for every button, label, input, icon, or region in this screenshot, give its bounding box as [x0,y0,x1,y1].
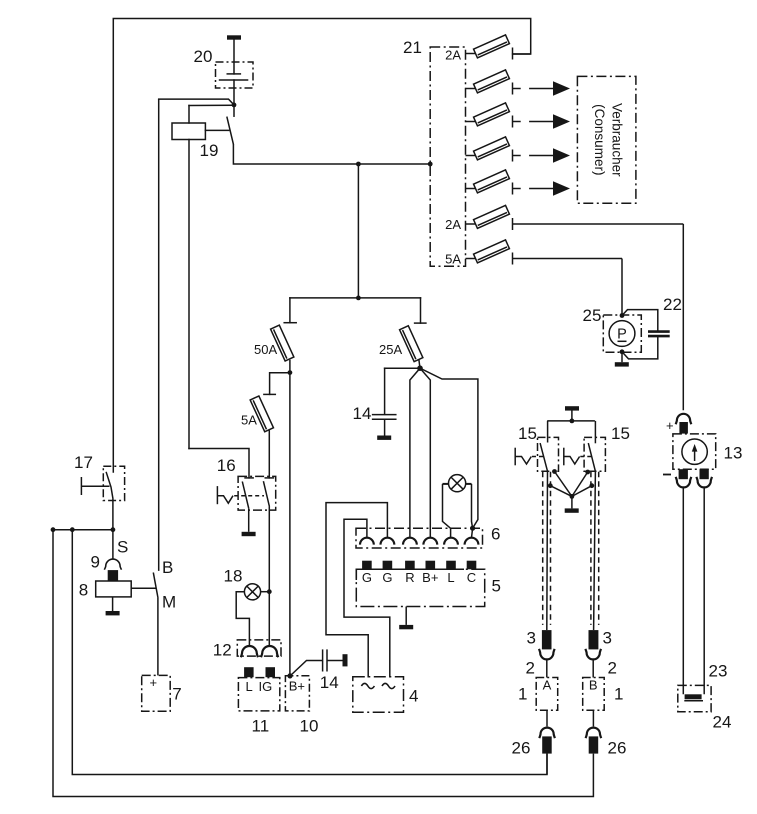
svg-text:10: 10 [300,717,319,736]
svg-text:G: G [382,570,392,585]
svg-text:L: L [246,679,253,694]
svg-text:15: 15 [611,424,630,443]
svg-text:IG: IG [259,679,273,694]
svg-text:P: P [617,327,627,343]
svg-text:B+: B+ [422,570,438,585]
svg-text:2: 2 [608,659,617,678]
svg-text:26: 26 [512,739,531,758]
svg-text:1: 1 [614,685,623,704]
svg-text:15: 15 [518,424,537,443]
svg-text:2: 2 [526,659,535,678]
svg-text:3: 3 [603,629,612,648]
svg-text:3: 3 [527,629,536,648]
svg-text:13: 13 [724,444,743,463]
svg-text:6: 6 [491,525,500,544]
svg-text:16: 16 [217,456,236,475]
svg-text:5A: 5A [241,413,257,428]
svg-text:26: 26 [608,739,627,758]
svg-text:24: 24 [713,713,732,732]
svg-text:22: 22 [663,295,682,314]
svg-text:21: 21 [403,38,422,57]
svg-text:1: 1 [518,685,527,704]
svg-text:9: 9 [91,553,100,572]
svg-text:M: M [162,593,176,612]
svg-text:B: B [162,558,173,577]
svg-text:A: A [543,678,552,693]
svg-text:B+: B+ [289,679,305,694]
svg-text:50A: 50A [254,342,277,357]
svg-text:18: 18 [224,567,243,586]
svg-text:4: 4 [409,687,418,706]
svg-text:R: R [405,570,414,585]
svg-text:C: C [467,570,476,585]
svg-text:20: 20 [194,47,213,66]
svg-text:+: + [150,675,158,690]
svg-text:2A: 2A [445,48,461,63]
svg-text:G: G [362,570,372,585]
svg-text:7: 7 [172,685,181,704]
svg-text:12: 12 [213,641,232,660]
svg-text:11: 11 [252,717,270,736]
svg-text:23: 23 [709,662,728,681]
svg-text:2A: 2A [445,217,461,232]
svg-text:17: 17 [74,453,93,472]
svg-text:14: 14 [320,673,339,692]
svg-text:8: 8 [79,581,88,600]
svg-text:S: S [117,538,128,557]
svg-text:25A: 25A [379,342,402,357]
svg-text:5: 5 [492,577,501,596]
svg-text:14: 14 [353,404,372,423]
svg-text:B: B [589,678,598,693]
svg-text:19: 19 [200,141,219,160]
svg-text:5A: 5A [445,252,461,267]
svg-text:25: 25 [583,306,602,325]
svg-text:+: + [666,418,674,433]
svg-text:L: L [447,570,454,585]
